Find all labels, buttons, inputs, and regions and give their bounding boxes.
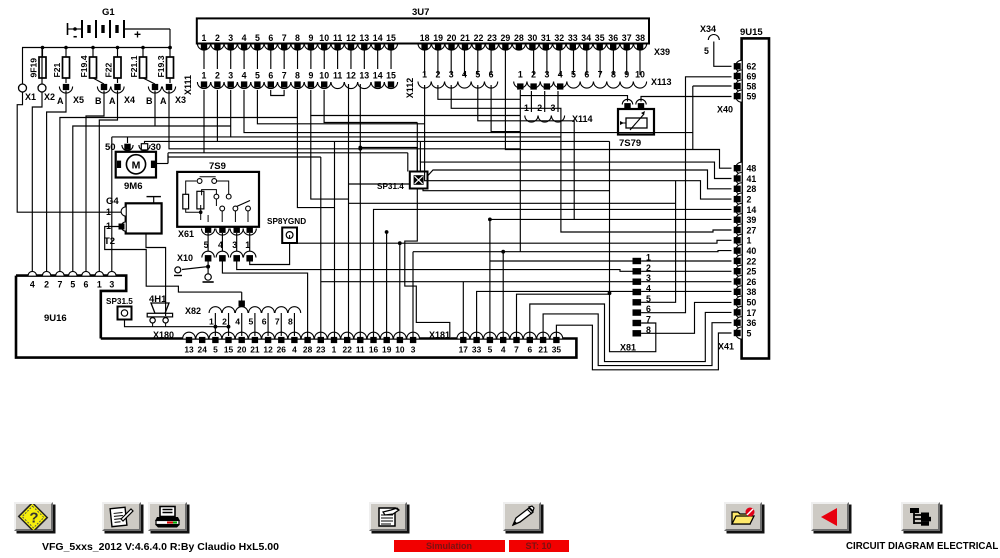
svg-text:59: 59 — [747, 92, 757, 102]
svg-text:?: ? — [30, 509, 39, 526]
svg-text:38: 38 — [747, 287, 757, 297]
svg-text:36: 36 — [608, 33, 618, 43]
9U15 pin scallops X40/X41 — [736, 60, 742, 72]
svg-text:48: 48 — [747, 164, 757, 174]
bus SP31.4 to 9U15 pin41 — [420, 162, 731, 178]
wire 7S79 right pin to 9U15 pin59 — [641, 97, 732, 102]
svg-text:X111: X111 — [183, 75, 193, 95]
svg-text:33: 33 — [472, 345, 482, 355]
wire SP31.5 to X82 — [125, 320, 229, 327]
svg-text:3U7: 3U7 — [412, 7, 429, 18]
toolbar button help — [14, 502, 53, 531]
bus SP31.4 190.7 — [423, 189, 610, 191]
svg-text:1: 1 — [209, 317, 214, 327]
svg-text:6: 6 — [527, 345, 532, 355]
svg-text:2: 2 — [215, 71, 220, 81]
svg-text:F21: F21 — [52, 62, 62, 77]
svg-text:+: + — [134, 28, 141, 42]
svg-text:X82: X82 — [185, 306, 201, 316]
svg-text:19: 19 — [382, 345, 392, 355]
svg-text:12: 12 — [263, 345, 273, 355]
wire X2 to 9U16 pin4 — [32, 92, 42, 272]
svg-text:9M6: 9M6 — [124, 181, 142, 192]
wire battery to fuse bus — [169, 29, 171, 48]
svg-text:5: 5 — [255, 71, 260, 81]
svg-text:9F19: 9F19 — [29, 58, 39, 78]
svg-text:1: 1 — [202, 71, 207, 81]
bus X111.10 — [324, 90, 417, 123]
branch X111.9 step to riser — [311, 116, 349, 200]
riser X180.23 — [320, 157, 322, 337]
branch X111.8 step to riser — [297, 118, 334, 208]
riser X180.11 — [359, 84, 361, 337]
svg-text:14: 14 — [747, 205, 757, 215]
bus X112.3 to 9U15 pin27 — [451, 85, 731, 232]
bus 203.3 — [349, 202, 676, 204]
svg-text:38: 38 — [635, 33, 645, 43]
connector X1 — [19, 84, 27, 92]
wire X81 row3 — [321, 282, 732, 337]
svg-text:5: 5 — [249, 317, 254, 327]
bus X111.1 node — [203, 90, 205, 153]
svg-text:B: B — [146, 96, 153, 106]
connector X5 pin A — [65, 78, 67, 83]
svg-text:11: 11 — [333, 33, 342, 43]
svg-text:5: 5 — [747, 328, 752, 338]
bus X10.4 to X180.28 — [222, 261, 307, 337]
svg-text:X2: X2 — [44, 92, 55, 102]
svg-text:2: 2 — [44, 280, 49, 290]
wire X81 row1 — [490, 260, 732, 262]
ECU 9U15 box — [742, 38, 769, 358]
svg-text:40: 40 — [747, 246, 757, 256]
wire T2 route to X82.4 — [105, 227, 242, 293]
wire X3A to bus 148.8 — [169, 91, 520, 149]
riser X180.22 — [348, 84, 350, 337]
wires X82 risers — [214, 313, 216, 336]
riser X180.10 — [399, 243, 401, 337]
svg-text:9: 9 — [308, 71, 313, 81]
svg-text:SP8YGND: SP8YGND — [267, 217, 306, 226]
svg-text:4: 4 — [235, 317, 240, 327]
connector X3 pin B — [143, 78, 155, 84]
connector X4 pin B — [93, 78, 104, 84]
svg-text:X181: X181 — [429, 330, 450, 340]
toolbar button folder — [724, 502, 763, 531]
wire X4B to 9U16 pin6 — [86, 91, 104, 272]
svg-text:28: 28 — [514, 33, 524, 43]
fuse 9F19 — [42, 48, 44, 58]
wire G4 bottom to 4H1 — [146, 234, 166, 317]
fuse F21.1 — [142, 48, 144, 58]
svg-text:18: 18 — [420, 33, 430, 43]
svg-text:10: 10 — [319, 71, 329, 81]
svg-text:20: 20 — [237, 345, 247, 355]
svg-text:F19.4: F19.4 — [79, 55, 89, 77]
svg-text:X1: X1 — [25, 92, 36, 102]
svg-text:58: 58 — [747, 81, 757, 91]
svg-text:X3: X3 — [175, 95, 186, 105]
simulation label — [394, 540, 505, 552]
wires X61 to X10 — [207, 233, 209, 252]
svg-text:A: A — [160, 96, 167, 106]
toolbar button edit — [102, 502, 141, 531]
svg-text:1: 1 — [332, 345, 337, 355]
toolbar button back — [811, 502, 850, 531]
bus X39.29 to 9U15 pin48 — [505, 50, 731, 168]
svg-text:31: 31 — [541, 33, 551, 43]
svg-text:X61: X61 — [178, 229, 194, 239]
svg-text:A: A — [109, 96, 116, 106]
svg-text:4: 4 — [501, 345, 506, 355]
svg-text:6: 6 — [268, 71, 273, 81]
svg-text:1: 1 — [518, 70, 523, 80]
svg-text:3: 3 — [228, 33, 233, 43]
svg-text:SP31.5: SP31.5 — [106, 297, 133, 306]
svg-text:3: 3 — [449, 70, 454, 80]
X82 pin4 top square — [239, 301, 245, 307]
wires X39 right to X112 — [424, 50, 426, 75]
svg-text:G4: G4 — [106, 196, 119, 207]
svg-text:36: 36 — [747, 318, 757, 328]
bus X112.2 to 9U15 pin40 — [413, 85, 732, 252]
connector X81 pins — [633, 258, 642, 264]
toolbar button tree — [901, 502, 940, 531]
svg-text:10: 10 — [319, 33, 329, 43]
svg-text:8: 8 — [288, 317, 293, 327]
wire X181.4 riser — [502, 252, 504, 337]
svg-text:4: 4 — [30, 280, 35, 290]
svg-text:22: 22 — [747, 256, 757, 266]
riser X181.5 — [489, 219, 491, 337]
svg-text:X10: X10 — [177, 253, 193, 263]
bus X111.8 to 9U16 pin7 — [60, 90, 298, 272]
svg-text:15: 15 — [386, 33, 396, 43]
wire X81 row2 right — [641, 270, 731, 272]
riser X180.1 — [334, 141, 336, 337]
wire X1 to G4 pin1 — [17, 92, 121, 212]
wire X181.7 to loop — [517, 294, 610, 337]
svg-text:19: 19 — [433, 33, 443, 43]
svg-text:69: 69 — [747, 71, 757, 81]
svg-text:X40: X40 — [717, 105, 733, 115]
svg-text:9: 9 — [308, 33, 313, 43]
svg-text:13: 13 — [359, 33, 369, 43]
svg-text:4: 4 — [292, 345, 297, 355]
ST label — [509, 540, 569, 552]
svg-text:30: 30 — [151, 142, 162, 153]
svg-text:7S9: 7S9 — [209, 161, 226, 172]
svg-text:15: 15 — [224, 345, 234, 355]
svg-text:10: 10 — [395, 345, 405, 355]
svg-text:3: 3 — [228, 71, 233, 81]
wire SP31.4 down to bar — [405, 189, 450, 338]
svg-text:X4: X4 — [124, 95, 135, 105]
svg-text:21: 21 — [538, 345, 548, 355]
svg-text:11: 11 — [356, 345, 365, 355]
svg-text:A: A — [57, 96, 64, 106]
wire SP31.4 up — [360, 148, 417, 172]
svg-text:7: 7 — [275, 317, 280, 327]
svg-text:5: 5 — [571, 70, 576, 80]
svg-text:28: 28 — [747, 184, 757, 194]
svg-text:10: 10 — [635, 70, 645, 80]
svg-text:3: 3 — [411, 345, 416, 355]
svg-text:13: 13 — [184, 345, 194, 355]
svg-text:-: - — [73, 28, 77, 43]
svg-text:2: 2 — [222, 317, 227, 327]
svg-text:1: 1 — [422, 70, 427, 80]
svg-text:7: 7 — [57, 280, 62, 290]
status text left — [42, 541, 279, 553]
svg-text:7S79: 7S79 — [619, 138, 641, 149]
wire X5A to 9U16 pin2 — [47, 91, 66, 272]
svg-text:5: 5 — [704, 46, 709, 56]
svg-text:X112: X112 — [405, 78, 415, 99]
wires X113 to X114 — [530, 91, 532, 112]
svg-text:7: 7 — [514, 345, 519, 355]
svg-text:X34: X34 — [700, 24, 716, 34]
sensor 7S79 — [618, 109, 654, 135]
svg-text:41: 41 — [747, 174, 757, 184]
svg-text:X41: X41 — [718, 342, 734, 352]
svg-text:20: 20 — [447, 33, 457, 43]
fuse bus — [22, 47, 170, 49]
wire X2 up to bus — [41, 48, 43, 85]
svg-text:X114: X114 — [572, 114, 593, 124]
svg-text:21: 21 — [460, 33, 470, 43]
svg-text:X5: X5 — [73, 95, 84, 105]
svg-text:F22: F22 — [104, 62, 114, 77]
svg-text:23: 23 — [487, 33, 497, 43]
svg-text:24: 24 — [198, 345, 208, 355]
svg-text:17: 17 — [747, 308, 757, 318]
fuse F21 — [65, 48, 67, 58]
svg-text:21: 21 — [250, 345, 260, 355]
svg-text:2: 2 — [215, 33, 220, 43]
svg-text:27: 27 — [747, 225, 757, 235]
wire 7S79 left pin to X113.1 — [520, 96, 627, 102]
wires X39 left to X111 — [203, 50, 205, 69]
toolbar button print — [148, 502, 187, 531]
svg-text:7: 7 — [282, 33, 287, 43]
svg-text:14: 14 — [373, 33, 383, 43]
ECU 9U16 box — [16, 276, 576, 358]
bus X111.9 — [311, 90, 521, 116]
svg-text:3: 3 — [109, 280, 114, 290]
svg-text:F21.1: F21.1 — [129, 55, 139, 77]
bus SP31.4 to 9U15 pin28 — [428, 170, 732, 189]
svg-text:1: 1 — [747, 236, 752, 246]
svg-text:3: 3 — [544, 70, 549, 80]
wire X181.35 to 9U15 pin5 — [556, 325, 731, 370]
fuse F22 — [117, 48, 119, 58]
svg-text:8: 8 — [295, 33, 300, 43]
wire X81 row7 loop — [610, 141, 656, 351]
bus X112.1 to 9U15 pin2 — [425, 85, 732, 199]
svg-text:9: 9 — [624, 70, 629, 80]
svg-text:28: 28 — [303, 345, 313, 355]
svg-text:4: 4 — [558, 70, 563, 80]
svg-text:17: 17 — [459, 345, 469, 355]
svg-text:37: 37 — [622, 33, 632, 43]
svg-text:5: 5 — [488, 345, 493, 355]
svg-text:8: 8 — [611, 70, 616, 80]
connector X2 — [38, 84, 46, 92]
wire X111.6-7 link — [271, 90, 284, 96]
svg-text:50: 50 — [747, 298, 757, 308]
svg-text:SP31.4: SP31.4 — [377, 182, 404, 191]
wire SP8YGND to 9U15 pin1 — [297, 240, 732, 243]
svg-text:16: 16 — [369, 345, 379, 355]
9U16 top pins — [28, 271, 36, 275]
svg-text:6: 6 — [262, 317, 267, 327]
svg-text:15: 15 — [386, 71, 396, 81]
svg-text:9U16: 9U16 — [44, 313, 67, 324]
svg-text:9U15: 9U15 — [740, 27, 763, 38]
svg-text:34: 34 — [581, 33, 591, 43]
stub SP31.4 up — [416, 123, 418, 172]
svg-text:X39: X39 — [654, 47, 670, 57]
svg-text:25: 25 — [747, 267, 757, 277]
svg-text:G1: G1 — [102, 7, 115, 18]
fuse F19.3 — [169, 48, 171, 58]
wire X1 up to bus — [22, 48, 24, 85]
svg-text:X180: X180 — [153, 330, 174, 340]
svg-text:12: 12 — [346, 71, 356, 81]
svg-text:35: 35 — [595, 33, 605, 43]
svg-text:12: 12 — [346, 33, 356, 43]
svg-text:7: 7 — [598, 70, 603, 80]
svg-text:1: 1 — [97, 280, 102, 290]
svg-text:5: 5 — [213, 345, 218, 355]
svg-text:4: 4 — [242, 71, 247, 81]
toolbar button notes — [369, 502, 408, 531]
wire X181.21 to 9U15 pin36 — [543, 314, 731, 366]
svg-text:F19.3: F19.3 — [156, 55, 166, 77]
connector X3 pin A — [169, 78, 171, 83]
fuse F19.4 — [92, 48, 94, 58]
wire X81 row4 — [477, 291, 732, 337]
svg-text:4: 4 — [646, 284, 651, 294]
svg-text:14: 14 — [373, 71, 383, 81]
connector X4 pin A — [117, 78, 119, 83]
bus X111.4 — [244, 90, 693, 133]
svg-text:2: 2 — [531, 70, 536, 80]
svg-text:26: 26 — [277, 345, 287, 355]
svg-text:11: 11 — [333, 71, 342, 81]
svg-text:23: 23 — [316, 345, 326, 355]
svg-text:8: 8 — [295, 71, 300, 81]
title bottom right — [846, 541, 998, 552]
bus X111.2 motor 30 — [145, 90, 610, 143]
svg-text:T2: T2 — [104, 236, 115, 247]
svg-text:5: 5 — [70, 280, 75, 290]
svg-text:22: 22 — [343, 345, 353, 355]
bus X112.6 — [491, 85, 520, 132]
svg-text:39: 39 — [747, 215, 757, 225]
svg-text:X113: X113 — [651, 77, 672, 87]
riser X180.19 — [386, 232, 388, 337]
wire X10.1 to SP8YGND — [250, 243, 290, 265]
wire X81 row5 riser — [641, 181, 676, 303]
svg-text:33: 33 — [568, 33, 578, 43]
svg-text:X81: X81 — [620, 343, 636, 353]
wire 9U15 pin58 riser — [693, 86, 732, 150]
wire X181.6 to 9U15 pin17 — [530, 304, 732, 362]
svg-text:2: 2 — [747, 195, 752, 205]
svg-text:6: 6 — [268, 33, 273, 43]
svg-text:50: 50 — [105, 142, 116, 153]
svg-text:6: 6 — [584, 70, 589, 80]
bus X112.5 to 9U15 pin39 — [478, 85, 732, 219]
svg-text:35: 35 — [552, 345, 562, 355]
bus X111.5 — [257, 90, 424, 124]
ground under X10.5 — [207, 261, 209, 274]
toolbar button probe — [503, 502, 542, 531]
svg-text:4: 4 — [462, 70, 467, 80]
svg-text:13: 13 — [359, 71, 369, 81]
svg-text:4: 4 — [242, 33, 247, 43]
svg-text:6: 6 — [489, 70, 494, 80]
bus X10.3 to X81 row2 / 9U15 pin25 — [237, 261, 633, 271]
svg-text:32: 32 — [554, 33, 564, 43]
riser X180.3 — [412, 252, 414, 337]
svg-text:26: 26 — [747, 277, 757, 287]
svg-text:B: B — [95, 96, 102, 106]
svg-text:30: 30 — [528, 33, 538, 43]
motor 9M6 — [116, 152, 156, 178]
svg-text:7: 7 — [282, 71, 287, 81]
svg-text:1: 1 — [202, 33, 207, 43]
riser X180.16 to 9U15 pin14 — [374, 209, 732, 337]
bus X111.3 motor 50 — [112, 90, 561, 143]
svg-text:29: 29 — [501, 33, 511, 43]
wire X81 row8 to 9U15 pin50 — [641, 302, 731, 333]
ECU 3U7 box — [197, 18, 649, 43]
svg-text:62: 62 — [747, 62, 757, 72]
svg-text:5: 5 — [475, 70, 480, 80]
wire X3B to 9U16 pin5 — [73, 91, 231, 272]
svg-text:6: 6 — [84, 280, 89, 290]
wires X39 right to X113 — [533, 50, 535, 75]
wire X4A to 9U16 pin1 — [99, 91, 117, 272]
svg-text:22: 22 — [474, 33, 484, 43]
svg-text:5: 5 — [255, 33, 260, 43]
svg-text:M: M — [132, 159, 141, 171]
wire X81 row6 to 9U15 pin69 — [641, 77, 731, 313]
svg-text:2: 2 — [435, 70, 440, 80]
